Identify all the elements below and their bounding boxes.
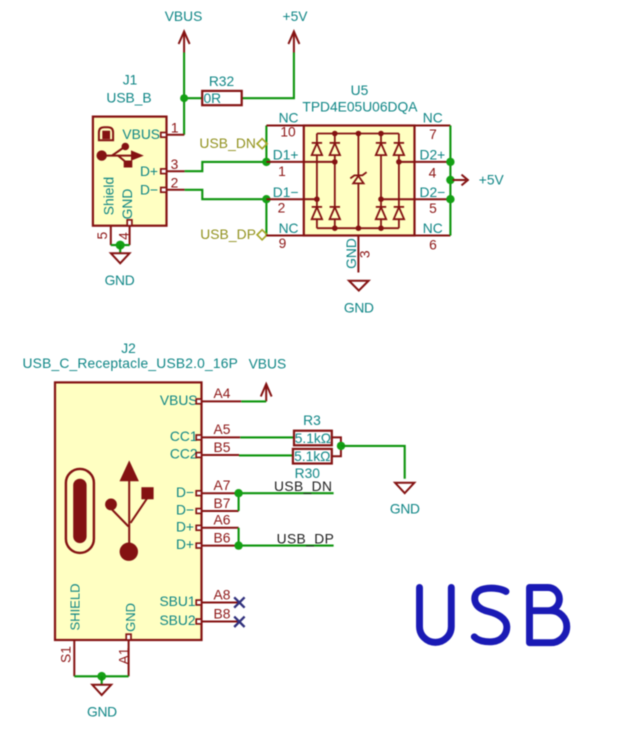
- svg-text:SHIELD: SHIELD: [67, 584, 82, 631]
- svg-text:GND: GND: [87, 705, 117, 720]
- U5 pin 4 D2+: [415, 148, 451, 181]
- svg-text:5.1kΩ: 5.1kΩ: [294, 449, 330, 464]
- svg-text:A7: A7: [214, 478, 231, 493]
- U5 pin 9 NC: [266, 221, 303, 251]
- ground symbol J1: [105, 245, 135, 288]
- svg-text:A1: A1: [117, 648, 132, 665]
- svg-text:0R: 0R: [204, 91, 222, 106]
- J2 pin B7 D-: [196, 496, 238, 514]
- svg-text:1: 1: [278, 164, 286, 179]
- svg-text:3: 3: [357, 250, 372, 258]
- J1 pin 4 gnd: [117, 220, 132, 245]
- svg-text:D+: D+: [140, 164, 158, 179]
- svg-text:4: 4: [117, 232, 132, 240]
- J2 pin A6 D+: [196, 513, 238, 531]
- svg-text:J1: J1: [123, 72, 138, 87]
- U5 pin 1 D1+: [266, 148, 303, 179]
- junction D1-: [262, 195, 270, 203]
- wire D- J1 to U5: [185, 190, 267, 199]
- wire +5V to R32: [242, 53, 294, 99]
- ic U5: [266, 83, 450, 273]
- J2 pin A7 D-: [196, 478, 238, 496]
- power symbol VBUS J2: [261, 384, 272, 401]
- svg-text:D−: D−: [176, 503, 194, 518]
- junction B6: [234, 541, 242, 549]
- svg-text:USB_B: USB_B: [106, 91, 151, 106]
- wire VBUS vertical: [183, 53, 185, 135]
- ground symbol CC: [390, 483, 420, 517]
- svg-text:USB_DP: USB_DP: [200, 227, 256, 242]
- lead R30 right: [332, 446, 341, 456]
- U5 pin 10 NC: [266, 111, 303, 140]
- svg-text:VBUS: VBUS: [165, 9, 203, 24]
- no-connect A8: [234, 597, 244, 607]
- junction +5V: [446, 176, 454, 184]
- svg-text:B7: B7: [214, 496, 231, 511]
- diode D-f (c2 bottom): [330, 207, 340, 219]
- svg-text:10: 10: [280, 125, 296, 140]
- wire USB_DP drop: [265, 199, 267, 235]
- U5 row stubs inside: [304, 161, 335, 163]
- svg-text:NC: NC: [279, 221, 299, 236]
- svg-text:A8: A8: [214, 587, 231, 602]
- svg-text:D2+: D2+: [420, 148, 446, 163]
- svg-text:D−: D−: [176, 485, 194, 500]
- svg-text:R32: R32: [209, 74, 234, 89]
- svg-text:USB_DP: USB_DP: [277, 531, 335, 546]
- J2 pin S1 shield: [59, 640, 75, 676]
- svg-text:USB_DN: USB_DN: [274, 479, 332, 494]
- lead R3 right: [332, 437, 341, 446]
- svg-text:B8: B8: [214, 606, 231, 621]
- wire CC to gnd: [341, 446, 405, 479]
- svg-text:R3: R3: [303, 413, 321, 428]
- svg-text:USB_C_Receptacle_USB2.0_16P: USB_C_Receptacle_USB2.0_16P: [23, 356, 239, 371]
- svg-text:CC2: CC2: [170, 447, 198, 462]
- U5 inner junction dots: [332, 131, 338, 137]
- svg-text:VBUS: VBUS: [160, 393, 198, 408]
- wire USB_DN: [239, 493, 334, 511]
- J1 pin 1 VBUS: [161, 120, 185, 137]
- junction J2 gnd: [97, 672, 106, 681]
- connector J1: [93, 72, 185, 245]
- wire USB_DP: [239, 528, 334, 546]
- svg-text:6: 6: [429, 238, 437, 253]
- wire VBUS A4: [241, 400, 266, 402]
- junction D2+: [446, 158, 454, 166]
- J2 usb-c stadium icon: [66, 469, 94, 553]
- wire J1 gnd: [111, 244, 130, 246]
- svg-text:GND: GND: [120, 189, 135, 220]
- ground symbol J2: [87, 676, 117, 719]
- wire D+ J1 to U5: [185, 162, 267, 171]
- resistor R30: [293, 449, 332, 481]
- zener TVS center: [350, 172, 366, 183]
- resistor R32: [202, 74, 242, 106]
- junction J1 gnd: [116, 241, 125, 250]
- svg-text:4: 4: [429, 165, 437, 180]
- diode D-e (c1 bottom): [312, 207, 322, 219]
- J2 pin B5 CC2: [196, 440, 239, 458]
- U5 inner rails: [317, 133, 399, 135]
- junction VBUS/R32: [180, 94, 188, 102]
- diode D-h (c4 bottom): [394, 207, 404, 219]
- svg-text:VBUS: VBUS: [249, 356, 287, 371]
- svg-text:SBU1: SBU1: [159, 594, 195, 609]
- svg-text:NC: NC: [423, 111, 443, 126]
- J2 pin B8 SBU2: [196, 606, 239, 624]
- wire CC1 to R3: [240, 436, 294, 438]
- J2 pin B6 D+: [196, 530, 238, 548]
- svg-text:B5: B5: [214, 440, 231, 455]
- svg-text:A6: A6: [214, 513, 231, 528]
- svg-text:U5: U5: [351, 83, 369, 98]
- svg-text:D+: D+: [176, 519, 194, 534]
- wire +5V right rail: [449, 126, 451, 236]
- svg-text:+5V: +5V: [283, 9, 309, 24]
- svg-text:NC: NC: [279, 111, 299, 126]
- J2 pin A5 CC1: [196, 422, 240, 440]
- J2 pin A8 SBU1: [196, 587, 239, 605]
- U5 pin 7 NC: [415, 111, 451, 143]
- svg-text:D2−: D2−: [420, 185, 446, 200]
- svg-text:+5V: +5V: [479, 173, 505, 188]
- svg-text:D+: D+: [176, 537, 194, 552]
- junction A7: [234, 489, 242, 497]
- svg-text:D1+: D1+: [273, 148, 299, 163]
- no-connect B8: [234, 617, 244, 627]
- J1 usb-b plug icon: [99, 127, 113, 140]
- svg-text:GND: GND: [123, 603, 138, 632]
- J2 pin A1 gnd: [117, 634, 132, 676]
- junction D2-: [446, 195, 454, 203]
- svg-text:GND: GND: [344, 300, 374, 315]
- svg-text:D1−: D1−: [273, 185, 299, 200]
- J1 pin 5 shield: [95, 226, 111, 245]
- U5 pin 3 GND: [344, 236, 372, 273]
- diode D-g (c3 bottom): [376, 207, 386, 219]
- svg-text:B6: B6: [214, 530, 231, 545]
- J1 usb trident icon: [97, 150, 107, 160]
- power symbol +5V right: [453, 173, 505, 188]
- svg-text:USB_DN: USB_DN: [199, 136, 256, 151]
- power symbol +5V top: [283, 9, 309, 53]
- svg-text:7: 7: [429, 127, 437, 142]
- diode D-d (c4 top): [394, 143, 404, 155]
- J2 usb trident icon: [120, 460, 139, 481]
- svg-text:S1: S1: [59, 646, 74, 663]
- power symbol VBUS top: [165, 9, 203, 53]
- U5 pin 6 NC: [415, 221, 451, 253]
- J1 pin 3 D+: [161, 157, 185, 173]
- connector J2: [23, 341, 287, 677]
- wire USB_DN drop: [265, 126, 267, 162]
- svg-text:CC1: CC1: [170, 429, 198, 444]
- svg-text:TPD4E05U06DQA: TPD4E05U06DQA: [302, 100, 418, 115]
- diode D-a (c1 top): [312, 143, 322, 155]
- svg-text:SBU2: SBU2: [159, 613, 195, 628]
- hier label USB_DP: [200, 227, 267, 242]
- hier label USB_DN: [199, 136, 267, 151]
- U5 pin 2 D1-: [266, 185, 303, 216]
- diode D-c (c3 top): [376, 143, 386, 155]
- U5 pin 5 D2-: [415, 185, 451, 216]
- graphic text USB: [420, 588, 567, 643]
- svg-text:5: 5: [95, 232, 110, 240]
- svg-text:2: 2: [171, 176, 179, 191]
- J2 pin A4 VBUS: [196, 386, 241, 404]
- ground symbol U5: [344, 281, 374, 316]
- svg-text:A4: A4: [214, 386, 231, 401]
- resistor R3: [294, 413, 332, 446]
- svg-text:Shield: Shield: [102, 177, 117, 215]
- svg-text:D−: D−: [140, 182, 158, 197]
- svg-text:NC: NC: [423, 221, 443, 236]
- diode D-b (c2 top): [330, 143, 340, 155]
- svg-text:GND: GND: [390, 502, 420, 517]
- wire R32 left: [184, 97, 202, 99]
- svg-text:5.1kΩ: 5.1kΩ: [295, 431, 331, 446]
- svg-text:A5: A5: [214, 422, 231, 437]
- junction R3/R30: [337, 442, 345, 450]
- svg-text:2: 2: [278, 200, 286, 215]
- J1 pin 2 D-: [161, 176, 185, 193]
- svg-text:VBUS: VBUS: [122, 127, 160, 142]
- svg-text:1: 1: [171, 120, 179, 135]
- svg-text:5: 5: [429, 201, 437, 216]
- svg-text:3: 3: [171, 157, 179, 172]
- junction D1+: [262, 158, 270, 166]
- wire CC2 to R30: [239, 454, 293, 456]
- wire J2 gnd: [74, 675, 128, 677]
- svg-text:GND: GND: [105, 273, 135, 288]
- svg-text:J2: J2: [121, 341, 136, 356]
- svg-text:9: 9: [279, 236, 287, 251]
